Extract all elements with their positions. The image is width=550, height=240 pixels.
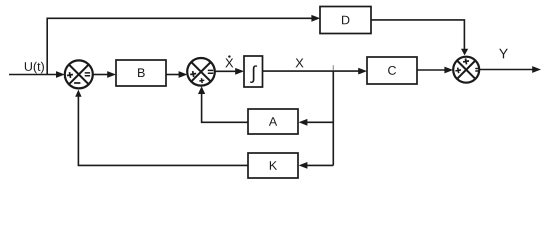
wire branch to block K input [299,162,334,169]
summing junction S1 [65,60,93,88]
integrator block [244,56,263,87]
block K [248,153,298,178]
wire S2 to integrator [215,68,244,75]
node Y output label [499,49,508,59]
sign plus left of S1 [67,72,74,79]
wire B to summing junction S2 [166,71,187,78]
sign plus bottom of S2 [199,78,205,84]
wire C to summing junction S3 [417,67,453,74]
sign plus top of S3 [463,58,470,65]
summing junction S3 [453,57,479,83]
wire S3 output Y [479,66,541,73]
block D [320,7,371,34]
wire X branch down to feedback paths [332,71,334,165]
faint tick above X branch node [332,65,334,70]
node U(t) input label [25,62,44,74]
wire K output up to S1 [75,90,248,166]
wire branch from u(t) up and over to block D [47,15,320,75]
node Xdot label [225,55,233,67]
sign plus left of S2 [190,71,197,78]
block C [367,57,417,84]
node X label [295,58,303,67]
wire S1 to block B [93,71,116,78]
sign equals right of S2 [208,70,213,73]
sign equals right of S1 [85,73,90,76]
wire A output up to S2 [198,86,248,122]
wire integrator to block C (node X line) [263,68,368,75]
wire input u(t) to summing junction S1 [9,71,65,78]
wire D output down to summing junction S3 [371,20,468,56]
sign minus bottom of S1 [74,82,80,84]
block A [248,109,298,134]
summing junction S2 [187,58,215,86]
wire branch to block A input [299,119,334,126]
sign equals right of S3 [475,69,479,72]
sign plus left of S3 [455,67,461,73]
block B [116,60,166,86]
